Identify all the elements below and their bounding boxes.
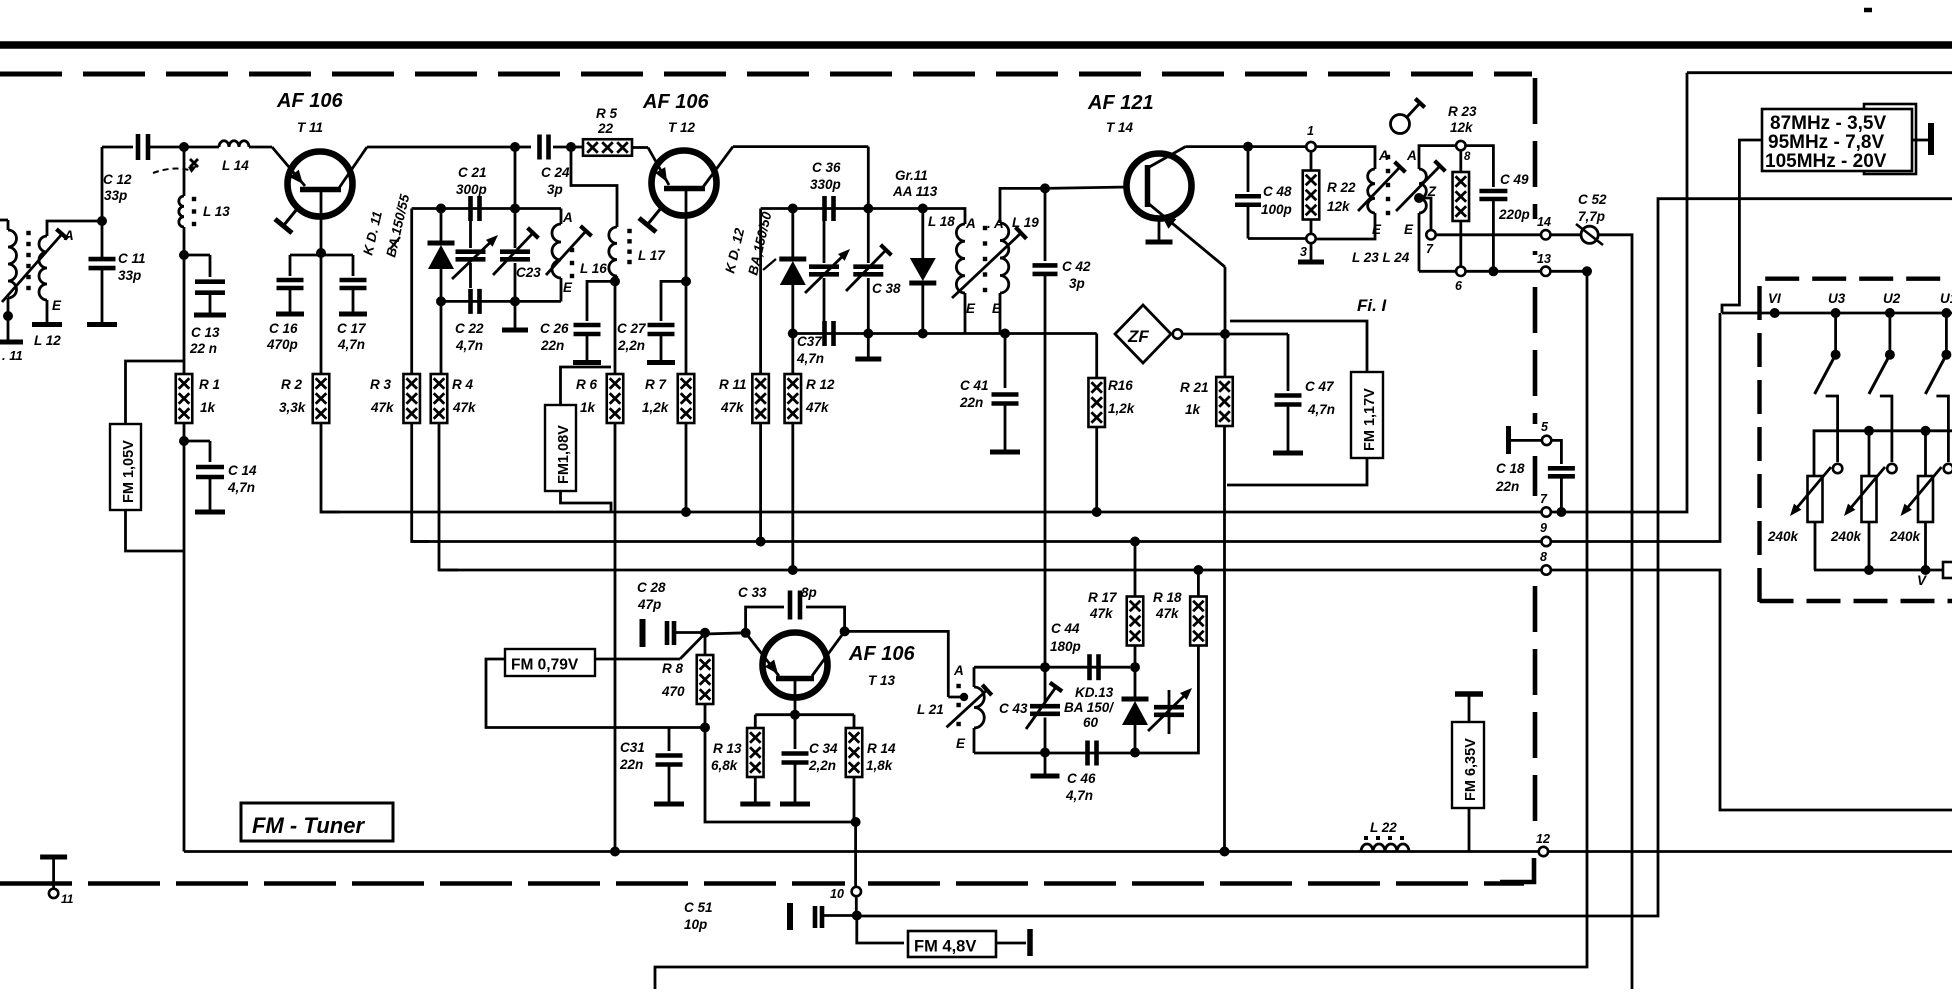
- pointer line KD.12: [763, 259, 776, 270]
- label C28: [637, 580, 666, 612]
- capacitor C41: [992, 334, 1019, 451]
- node R21 ground rail: [1220, 847, 1230, 857]
- T13 emitter lead with arrow: [746, 633, 779, 676]
- svg-text:R 3: R 3: [370, 377, 392, 392]
- svg-text:C 22: C 22: [455, 321, 484, 336]
- capacitor C52 feedthrough: [1576, 224, 1603, 245]
- T14 shield ground: [1146, 218, 1173, 243]
- transistor T12: [652, 151, 717, 216]
- svg-text:VI: VI: [1768, 291, 1781, 306]
- pointer line KD.11: [391, 237, 400, 248]
- coil L19: [1000, 223, 1009, 334]
- svg-text:L 12: L 12: [34, 333, 61, 348]
- terminal pin 1: [1306, 142, 1315, 151]
- ground for L12: [32, 322, 62, 327]
- svg-text:47k: 47k: [1155, 606, 1180, 621]
- label U3: [1828, 291, 1846, 306]
- svg-text:FM 4,8V: FM 4,8V: [914, 938, 976, 956]
- svg-text:C 24: C 24: [541, 165, 570, 180]
- svg-text:4,7n: 4,7n: [1307, 402, 1335, 417]
- label C48: [1261, 184, 1292, 217]
- node tank3 diode bottom: [1130, 748, 1140, 758]
- svg-text:C 44: C 44: [1051, 621, 1080, 636]
- svg-text:V: V: [1917, 573, 1927, 588]
- varactor diode KD.11: [428, 209, 455, 302]
- svg-text:100p: 100p: [1261, 202, 1292, 217]
- svg-text:240k: 240k: [1889, 529, 1922, 544]
- wire pin14 to C52: [1550, 233, 1581, 236]
- svg-text:300p: 300p: [456, 182, 487, 197]
- label pin 7 (L24): [1426, 242, 1434, 256]
- wire C12 corner down to L12 node: [101, 147, 104, 259]
- node L13 bottom: [179, 250, 189, 260]
- label pin 13: [1537, 252, 1551, 266]
- resistor R12: [785, 374, 802, 423]
- voltage box FM 1,05V: [110, 424, 141, 510]
- core dots L18/L19: [983, 226, 987, 292]
- svg-text:22n: 22n: [1495, 479, 1519, 494]
- svg-text:12k: 12k: [1327, 199, 1351, 214]
- svg-text:AA 113: AA 113: [892, 184, 938, 199]
- svg-text:240k: 240k: [1830, 529, 1863, 544]
- node C12/L13/L14: [179, 142, 189, 152]
- svg-text:R 23: R 23: [1448, 104, 1477, 119]
- FM tuner enclosure dashed top edge: [0, 72, 1532, 77]
- svg-text:47k: 47k: [452, 400, 477, 415]
- resistor R16: [1088, 378, 1105, 427]
- label L23 L24: [1352, 250, 1410, 265]
- potentiometer 240k U3: [1790, 467, 1831, 570]
- svg-text:R 2: R 2: [281, 377, 303, 392]
- wire FM1,05V bottom to R1 column: [126, 510, 185, 551]
- svg-text:C23: C23: [516, 265, 541, 280]
- inductor L22: [1361, 844, 1409, 851]
- svg-text:47k: 47k: [720, 400, 745, 415]
- wire node to pin1: [1248, 145, 1306, 148]
- svg-text:180p: 180p: [1050, 639, 1081, 654]
- node T11 base: [316, 248, 326, 258]
- node top rail / C23 tap: [510, 142, 520, 152]
- svg-text:R 14: R 14: [867, 741, 896, 756]
- svg-text:E: E: [966, 301, 976, 316]
- svg-text:22: 22: [597, 121, 614, 136]
- wire R21 down to ground rail: [1223, 426, 1226, 852]
- svg-text:4,7n: 4,7n: [1065, 788, 1093, 803]
- svg-text:AF 106: AF 106: [642, 91, 709, 113]
- node tank1 diode top: [436, 204, 446, 214]
- wire R2 down to bus1 corner: [321, 423, 340, 512]
- resistor R17: [1127, 597, 1144, 646]
- node tank3 diode top: [1130, 662, 1140, 672]
- node R16 bus1: [1092, 507, 1102, 517]
- svg-text:C 26: C 26: [540, 321, 569, 336]
- svg-text:E: E: [563, 280, 573, 295]
- svg-text:A: A: [562, 210, 573, 225]
- capacitor C44: [1090, 654, 1099, 680]
- label L21: [917, 702, 944, 717]
- svg-text:R 4: R 4: [452, 377, 474, 392]
- capacitor C47: [1275, 396, 1302, 405]
- svg-text:13: 13: [1537, 252, 1551, 266]
- diamond ZF out symbol: [1115, 305, 1171, 363]
- svg-text:47k: 47k: [805, 400, 830, 415]
- capacitor C22: [471, 289, 480, 314]
- svg-text:Fi. I: Fi. I: [1357, 296, 1388, 315]
- node U2: [1885, 308, 1895, 318]
- label Gr.11: [892, 168, 938, 199]
- label C51: [684, 900, 713, 932]
- resistor R21: [1216, 377, 1233, 426]
- svg-text:C 27: C 27: [617, 321, 647, 336]
- capacitor C11: [89, 259, 116, 268]
- coil L21: [974, 667, 984, 753]
- svg-text:C 41: C 41: [960, 378, 989, 393]
- bus2 wire: [412, 313, 1720, 542]
- svg-text:4,7n: 4,7n: [796, 351, 824, 366]
- core dots L16: [570, 248, 574, 278]
- T11 emitter lead with arrow: [272, 147, 305, 186]
- node tank1 diode bottom: [436, 296, 446, 306]
- wire node to C14: [184, 441, 210, 462]
- trimmer capacitor C43: [1026, 667, 1062, 752]
- svg-text:C 46: C 46: [1067, 771, 1096, 786]
- wire C12 to node: [148, 146, 184, 149]
- node tank3 C43 top: [1040, 662, 1050, 672]
- T11 base lead down: [320, 190, 323, 253]
- resistor R1: [176, 374, 193, 423]
- coil L24: [1419, 146, 1455, 272]
- svg-text:22n: 22n: [959, 395, 983, 410]
- svg-text:11: 11: [61, 892, 74, 906]
- T11 base bar: [300, 187, 341, 193]
- node junction below L11: [3, 311, 13, 321]
- svg-text:1: 1: [1307, 124, 1314, 138]
- terminal pin 12: [1539, 847, 1548, 856]
- capacitor C26: [574, 325, 601, 334]
- ground for C41: [990, 450, 1020, 455]
- node R7 bus1: [681, 507, 691, 517]
- node T13 base bottom: [790, 710, 800, 720]
- svg-text:C 17: C 17: [337, 321, 367, 336]
- T11 shield stub: [275, 209, 297, 233]
- svg-text:C37: C37: [797, 334, 823, 349]
- varactor diode KD.12: [779, 209, 806, 334]
- core adjust L19: [952, 227, 1026, 298]
- label R6: [576, 377, 598, 415]
- svg-text:E: E: [992, 301, 1002, 316]
- capacitor C49: [1466, 146, 1508, 272]
- svg-text:L 23 L 24: L 23 L 24: [1352, 250, 1410, 265]
- tank1 bottom rail: [441, 300, 561, 303]
- wire L12 node to C11 node: [97, 216, 107, 226]
- svg-text:4,7n: 4,7n: [337, 337, 365, 352]
- svg-text:22n: 22n: [540, 338, 564, 353]
- varactor diode KD.13: [1122, 646, 1149, 753]
- wire R18 to bus3: [1197, 570, 1200, 596]
- node T13 input: [700, 628, 710, 638]
- wire emitter corner down: [1224, 267, 1227, 334]
- label E L21: [956, 736, 966, 751]
- label KD.12 rotated: [722, 210, 774, 277]
- diode Gr.11 AA113: [909, 209, 936, 334]
- node after C24: [566, 142, 576, 152]
- svg-text:L 22: L 22: [1370, 820, 1397, 835]
- node tank2 diode bottom: [788, 329, 798, 339]
- wire R14 lead: [853, 715, 856, 728]
- svg-text:C 49: C 49: [1500, 172, 1529, 187]
- svg-text:1k: 1k: [1185, 402, 1202, 417]
- ground for C17: [339, 288, 367, 314]
- svg-text:C 33: C 33: [738, 585, 767, 600]
- top border solid bar: [0, 41, 1952, 49]
- capacitor C31: [654, 728, 684, 805]
- svg-text:L 14: L 14: [222, 158, 249, 173]
- wire L19 top to T14 base: [1000, 188, 1045, 223]
- wire emitter line down to R21: [1224, 334, 1227, 376]
- capacitor C36: [825, 196, 834, 221]
- svg-text:8: 8: [1464, 151, 1471, 163]
- node tank3 C43 bottom: [1040, 748, 1050, 758]
- V terminal box: [1943, 562, 1952, 578]
- capacitor C14: [196, 467, 224, 477]
- wire R4 to bus3 corner: [439, 423, 458, 570]
- voltage box FM 1,08V: [545, 405, 576, 491]
- label AF 121: [1087, 92, 1154, 114]
- svg-text:330p: 330p: [810, 177, 841, 192]
- label R3: [370, 377, 395, 415]
- wire L23 bottom to pin3: [1316, 213, 1375, 239]
- svg-text:E: E: [1372, 222, 1382, 237]
- svg-text:87MHz - 3,5V: 87MHz - 3,5V: [1770, 113, 1886, 134]
- node R6 ground rail: [610, 847, 620, 857]
- svg-text:C 48: C 48: [1263, 184, 1292, 199]
- svg-text:95MHz - 7,8V: 95MHz - 7,8V: [1768, 132, 1884, 153]
- svg-text:6: 6: [1455, 279, 1463, 293]
- label L14: [222, 158, 249, 173]
- resistor R11: [752, 374, 769, 423]
- node R17 bus2: [1130, 537, 1140, 547]
- coil L12: [39, 221, 102, 322]
- svg-text:7: 7: [1540, 492, 1548, 506]
- node T12 base bottom: [681, 276, 691, 286]
- wire L17 node to C26: [587, 281, 615, 321]
- label 240k U1: [1889, 529, 1922, 544]
- wire tank3 to R18: [1135, 646, 1198, 753]
- label R14: [866, 741, 896, 773]
- svg-text:12k: 12k: [1450, 120, 1474, 135]
- label E E tank2: [966, 301, 1002, 316]
- capacitor C12: [138, 134, 148, 160]
- label C33: [738, 585, 817, 600]
- wire pin1 to L23: [1316, 147, 1375, 169]
- core dots L22: [1364, 836, 1404, 840]
- svg-text:U3: U3: [1828, 291, 1846, 306]
- wire R13 lead: [754, 715, 757, 728]
- ground rail: [184, 850, 1952, 853]
- label C26: [540, 321, 569, 353]
- label R13: [711, 741, 742, 773]
- label C22: [455, 321, 484, 353]
- svg-text:FM 1,17V: FM 1,17V: [1362, 388, 1378, 451]
- label R12: [805, 377, 835, 415]
- wire R7 to bus1: [685, 423, 688, 512]
- label C37: [796, 334, 824, 366]
- wire R17 to bus2: [1134, 542, 1137, 597]
- label KD.13: [1064, 685, 1114, 730]
- core dots between L11 and L12: [26, 231, 30, 290]
- dashed trimmer arrow near C12: [153, 159, 198, 173]
- label C46: [1065, 771, 1096, 803]
- svg-text:C 28: C 28: [637, 580, 666, 595]
- label C43: [999, 701, 1028, 716]
- wire osc output down to pin10: [854, 822, 857, 887]
- node U1: [1941, 308, 1951, 318]
- label E L24: [1404, 222, 1414, 237]
- node L19/C41 rail: [1000, 329, 1010, 339]
- core dots L21: [956, 684, 960, 726]
- transistor T13: [763, 633, 828, 698]
- svg-text:22 n: 22 n: [189, 341, 217, 356]
- resistor R3: [403, 374, 420, 423]
- label A L19 row: [965, 215, 1039, 231]
- core dots L13: [192, 197, 196, 226]
- svg-text:L 17: L 17: [638, 248, 666, 263]
- label C23: [516, 265, 541, 280]
- svg-text:R 6: R 6: [576, 377, 598, 392]
- node tank2 top right: [863, 204, 873, 214]
- wire C51 node to FM4,8V: [857, 916, 904, 944]
- svg-text:1k: 1k: [580, 400, 597, 415]
- label E L23: [1372, 222, 1382, 237]
- node R1/C14: [179, 436, 189, 446]
- label C12: [103, 172, 132, 203]
- svg-text:2,2n: 2,2n: [617, 338, 645, 353]
- svg-text:T 14: T 14: [1106, 120, 1134, 135]
- wire base node bracket: [290, 255, 353, 276]
- svg-text:33p: 33p: [118, 268, 141, 283]
- svg-text:47p: 47p: [637, 597, 661, 612]
- label A L24: [1406, 148, 1417, 163]
- svg-text:T 13: T 13: [868, 673, 896, 688]
- label C27: [617, 321, 647, 353]
- trimmer capacitor tank2: [805, 221, 850, 321]
- tank1 top rail: [412, 207, 561, 210]
- svg-text:U1: U1: [1940, 291, 1952, 306]
- T13 collector lead: [812, 631, 845, 676]
- label R23: [1448, 104, 1477, 135]
- svg-text:1,2k: 1,2k: [1108, 401, 1136, 416]
- ground for C13: [194, 293, 226, 315]
- node tank2 diode top: [788, 204, 798, 214]
- node R11 bus2: [756, 537, 766, 547]
- core adjust L24: [1396, 161, 1445, 211]
- node C49 bottom: [1488, 266, 1498, 276]
- potentiometer 240k U1: [1901, 467, 1942, 570]
- wire R16 to bus1: [1095, 427, 1098, 512]
- T13 base bar: [776, 676, 814, 682]
- svg-text:C 51: C 51: [684, 900, 713, 915]
- label R18: [1153, 590, 1182, 621]
- transistor T14: [1127, 154, 1192, 219]
- voltage box FM 6,35V: [1452, 722, 1484, 808]
- label C13: [189, 325, 220, 356]
- capacitor C33 bracket: [746, 607, 845, 633]
- wire T14 base: [1045, 187, 1128, 188]
- wire top-left to C12: [102, 146, 133, 149]
- node C42 top: [1040, 183, 1050, 193]
- terminal pin 7 (L24): [1426, 230, 1435, 239]
- tuning arrow across L11/L12: [2, 229, 68, 302]
- label A L21: [953, 663, 964, 678]
- svg-text:C 42: C 42: [1062, 259, 1091, 274]
- svg-text:33p: 33p: [104, 188, 127, 203]
- svg-text:3,3k: 3,3k: [279, 400, 307, 415]
- voltage box FM 0,79V: [505, 649, 595, 676]
- label C31: [619, 740, 645, 772]
- svg-text:12: 12: [1536, 832, 1550, 846]
- svg-text:1k: 1k: [200, 400, 217, 415]
- svg-text:A: A: [63, 228, 74, 243]
- svg-text:C31: C31: [620, 740, 645, 755]
- node tank1 bottom right: [510, 296, 520, 306]
- svg-text:BA 150/: BA 150/: [1064, 700, 1114, 715]
- wire base node to C27: [661, 281, 686, 321]
- label pin 1: [1307, 124, 1314, 138]
- capacitor C51: [790, 903, 852, 930]
- wire R8 bottom: [704, 704, 707, 728]
- label R21: [1180, 380, 1209, 417]
- label pin 3: [1300, 245, 1307, 259]
- label C38: [872, 281, 901, 296]
- node AA113 top: [918, 204, 928, 214]
- svg-text:R 18: R 18: [1153, 590, 1182, 605]
- voltage table box: [1762, 104, 1916, 174]
- node AA113 bottom: [918, 329, 928, 339]
- T13 base lead down: [794, 679, 797, 715]
- label 240k U2: [1830, 529, 1863, 544]
- svg-text:7: 7: [1426, 242, 1434, 256]
- wire pin6 rail: [1466, 270, 1542, 273]
- wire C52 to corner down: [1598, 235, 1632, 989]
- capacitor C33: [790, 591, 800, 620]
- svg-text:ZF: ZF: [1127, 327, 1149, 346]
- wire top rail corner to R3: [410, 209, 413, 375]
- wire ZF to emitter line: [1182, 333, 1222, 336]
- trimmer capacitor C38: [846, 209, 891, 334]
- label A L16: [562, 210, 573, 225]
- resistor R18: [1190, 597, 1207, 646]
- svg-text:4,7n: 4,7n: [227, 480, 255, 495]
- svg-text:5: 5: [1541, 420, 1549, 434]
- ground for C14: [195, 477, 225, 512]
- capacitor C18: [1548, 440, 1575, 512]
- label VI: [1768, 291, 1781, 306]
- T12 base lead down: [685, 190, 688, 281]
- label C18: [1495, 461, 1525, 494]
- label C36: [810, 160, 841, 192]
- label pin 7: [1540, 492, 1548, 506]
- wire Z tap to pin7: [1419, 198, 1431, 230]
- label R16: [1108, 378, 1136, 416]
- male symbol: [1391, 99, 1425, 134]
- wire mixer out line: [857, 199, 1952, 916]
- svg-text:C 13: C 13: [191, 325, 220, 340]
- label R8: [661, 661, 685, 699]
- capacitor C24: [515, 135, 571, 160]
- ground stub tank2: [855, 334, 881, 360]
- potentiometer 240k U2: [1844, 467, 1885, 570]
- tuning unit dashed box: [1760, 279, 1952, 602]
